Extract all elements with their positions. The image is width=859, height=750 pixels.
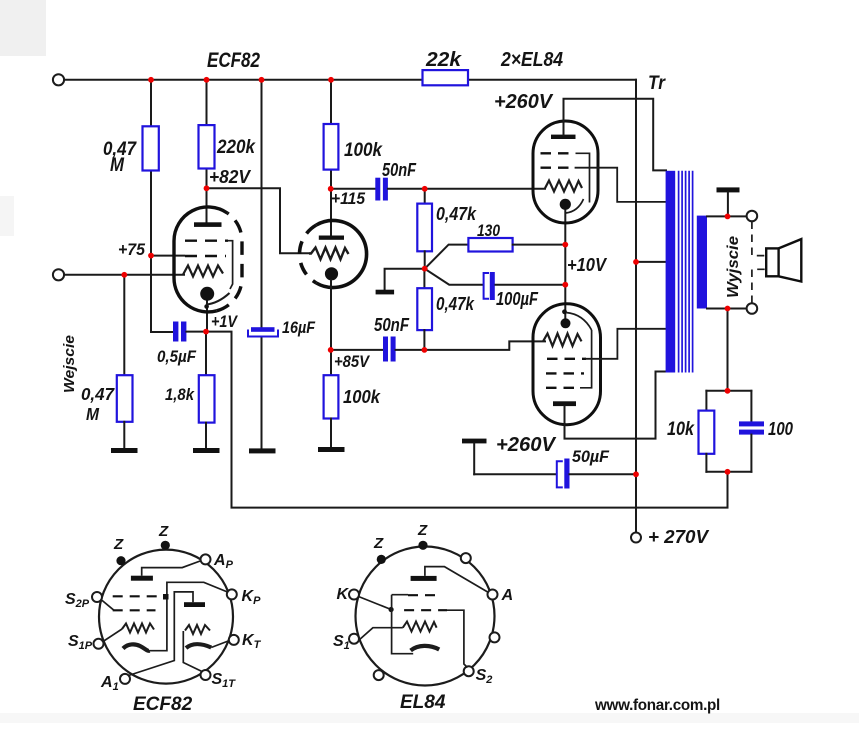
input terminal upper bbox=[53, 74, 64, 85]
grid zigzag V2 bbox=[309, 248, 349, 260]
label +10V bbox=[567, 255, 608, 275]
svg-text:0,47k: 0,47k bbox=[436, 294, 475, 314]
svg-text:A: A bbox=[501, 587, 514, 604]
label 22k bbox=[425, 49, 462, 71]
grid dashes middle EL84 lower bbox=[546, 372, 584, 374]
resistor 220k bbox=[199, 125, 215, 168]
svg-text:100: 100 bbox=[768, 419, 793, 439]
wire secondary bottom terminal bbox=[707, 308, 747, 310]
resistor 130 bbox=[468, 238, 512, 252]
label 50nF upper bbox=[382, 160, 417, 180]
pin S1 EL84 bbox=[349, 634, 359, 644]
svg-text:Wyjscie: Wyjscie bbox=[725, 236, 742, 298]
pentode cathode net Kp ECF82 socket bbox=[123, 582, 228, 651]
grid g2 dashes EL84 socket with S2 bbox=[404, 610, 467, 667]
label K EL84 bbox=[337, 586, 350, 603]
grid zigzag EL84 upper bbox=[545, 181, 582, 192]
pin S1T ECF82 bbox=[201, 670, 211, 680]
svg-text:EL84: EL84 bbox=[400, 692, 446, 713]
label S1P bbox=[68, 633, 93, 652]
label +1V bbox=[211, 312, 238, 331]
svg-text:100µF: 100µF bbox=[496, 289, 539, 309]
label 50uF bbox=[572, 448, 610, 466]
wire RC bottom node bbox=[706, 471, 751, 473]
pin bottom-left EL84 bbox=[374, 670, 384, 680]
wire ground to 50uF bbox=[474, 473, 555, 475]
wire X to 100uF bbox=[425, 269, 484, 285]
label 0,5uF bbox=[157, 347, 197, 366]
svg-text:1,8k: 1,8k bbox=[165, 385, 195, 404]
svg-text:Wejscie: Wejscie bbox=[61, 335, 78, 393]
cathode zigzag V1 bbox=[183, 266, 223, 277]
wire RC top node bbox=[706, 390, 751, 392]
pentode anode ECF82 socket bbox=[131, 561, 202, 581]
cathode hook EL84 upper bbox=[566, 199, 584, 213]
grid zigzag EL84 lower bbox=[543, 334, 582, 347]
pin KT ECF82 bbox=[229, 635, 239, 645]
triode tube V2 envelope bbox=[300, 221, 367, 288]
label Z2 ECF82 bbox=[158, 523, 169, 540]
grid g2 dashes V1 bbox=[185, 255, 226, 257]
svg-text:22k: 22k bbox=[425, 49, 462, 71]
svg-text:100k: 100k bbox=[344, 140, 383, 161]
cathode dot V2 bbox=[325, 267, 338, 280]
resistor 100k upper bbox=[324, 124, 339, 170]
ground X node bbox=[376, 269, 425, 295]
pin top-right EL84 bbox=[461, 553, 471, 563]
label Z1 EL84 bbox=[373, 535, 384, 552]
label A EL84 bbox=[501, 587, 514, 604]
resistor 0,47M upper bbox=[143, 126, 159, 170]
svg-text:M: M bbox=[110, 155, 125, 176]
label EL84 socket bbox=[400, 692, 446, 713]
input terminal lower bbox=[53, 269, 64, 280]
grid g2 dashes EL84 lower with tap bbox=[547, 329, 666, 359]
wire 50uF to B+ bbox=[570, 473, 637, 475]
wire 0,47M upper branch bbox=[151, 80, 173, 332]
socket ECF82 envelope bbox=[99, 550, 233, 684]
capacitor 100 bbox=[739, 391, 764, 472]
wire tube1 cathode to +1V bbox=[206, 301, 208, 332]
anode bar V2 bbox=[319, 236, 344, 240]
output terminal bottom bbox=[747, 303, 758, 314]
cathode arc EL84 socket bbox=[411, 646, 440, 651]
svg-text:Tr: Tr bbox=[648, 73, 666, 94]
pin S2 EL84 bbox=[464, 666, 474, 676]
ground 1,8k bbox=[193, 448, 220, 453]
ground 100k lower bbox=[318, 447, 345, 452]
resistor 0,47M lower bbox=[117, 275, 133, 448]
label 0,47 M lower bbox=[81, 384, 115, 424]
label +75 bbox=[118, 240, 146, 259]
label 50nF lower bbox=[374, 315, 410, 335]
svg-text:+ 270V: + 270V bbox=[648, 527, 710, 547]
wire 220k branch bbox=[206, 80, 208, 223]
wire 100k upper branch bbox=[330, 80, 332, 236]
svg-text:Z: Z bbox=[373, 535, 384, 552]
socket EL84 envelope bbox=[356, 547, 495, 686]
grid g2 dashes EL84 upper with tap bbox=[541, 168, 667, 202]
capacitor 0,5uF bbox=[173, 322, 206, 342]
wire secondary top terminal bbox=[707, 215, 747, 217]
wire 100uF to cathode line bbox=[496, 284, 566, 286]
capacitor 16uF bbox=[248, 327, 278, 336]
pin Kp ECF82 bbox=[227, 589, 237, 599]
resistor 10k bbox=[699, 391, 715, 472]
label Wejscie rotated bbox=[61, 335, 78, 393]
grid g3 dashes EL84 upper bbox=[541, 153, 590, 202]
label +260V lower bbox=[496, 434, 557, 456]
svg-text:+1V: +1V bbox=[211, 312, 238, 331]
wire +75 grid tap bbox=[151, 255, 184, 257]
wire top B+ rail left bbox=[64, 79, 422, 81]
wire EL84 lower anode to transformer bbox=[565, 372, 667, 439]
svg-text:+260V: +260V bbox=[496, 434, 557, 456]
resistor 22k bbox=[423, 70, 469, 85]
wire top B+ rail right bbox=[468, 79, 636, 81]
cathode dot EL84 lower bbox=[561, 309, 571, 328]
capacitor 50uF bbox=[557, 459, 570, 489]
pin Z1 EL84 bbox=[377, 555, 386, 564]
pin Z2 EL84 bbox=[418, 541, 427, 550]
svg-text:ECF82: ECF82 bbox=[133, 694, 193, 715]
svg-text:+85V: +85V bbox=[334, 352, 370, 371]
cathode hook EL84 lower bbox=[566, 313, 592, 331]
label S1 EL84 bbox=[333, 633, 350, 652]
label Tr bbox=[648, 73, 666, 94]
svg-text:+260V: +260V bbox=[494, 91, 554, 113]
wire bottom rail bbox=[206, 332, 728, 508]
label +115 bbox=[331, 189, 365, 208]
grid g3 dashes EL84 socket bbox=[408, 594, 442, 596]
dashed wires to speaker bbox=[752, 222, 766, 304]
grid g3 dashes EL84 lower bbox=[546, 330, 592, 388]
label 2xEL84 bbox=[500, 49, 563, 71]
cathode dot V1 bbox=[200, 287, 214, 309]
triode cathode net KT ECF82 socket bbox=[186, 641, 230, 649]
label Wyjscie rotated bbox=[725, 236, 742, 298]
wire +82V coupling to triode grid bbox=[207, 188, 311, 253]
wire B+ center tap bbox=[636, 261, 666, 263]
svg-text:0,5µF: 0,5µF bbox=[157, 347, 197, 366]
speaker bbox=[766, 239, 801, 281]
capacitor 50nF upper bbox=[375, 178, 388, 201]
label +82V bbox=[209, 167, 252, 187]
svg-text:M: M bbox=[86, 404, 99, 424]
capacitor 50nF lower bbox=[383, 337, 396, 362]
resistor 100k lower bbox=[324, 375, 339, 447]
pin Z1 ECF82 bbox=[116, 556, 125, 565]
anode bar EL84 upper bbox=[551, 135, 576, 139]
cathode hook V1 bbox=[206, 293, 230, 305]
ground output top bbox=[717, 187, 740, 216]
svg-text:100k: 100k bbox=[343, 386, 382, 407]
label Kp bbox=[242, 588, 262, 607]
label S1T bbox=[212, 671, 237, 690]
wire 130 to cathode line bbox=[513, 244, 566, 246]
svg-text:+115: +115 bbox=[331, 189, 365, 208]
label Ap bbox=[213, 552, 234, 571]
label 1,8k bbox=[165, 385, 195, 404]
label + 270V bbox=[648, 527, 710, 547]
svg-text:16µF: 16µF bbox=[282, 318, 316, 337]
pin Ap ECF82 bbox=[201, 554, 211, 564]
label 10k bbox=[667, 419, 695, 440]
pin right-lower EL84 bbox=[490, 632, 500, 642]
svg-text:50nF: 50nF bbox=[374, 315, 410, 335]
pentode tube V1 envelope bbox=[174, 207, 242, 312]
label A1 bbox=[100, 674, 119, 693]
wire 50nF to EL84 grid bbox=[388, 188, 545, 190]
label 130 bbox=[477, 221, 500, 240]
svg-text:130: 130 bbox=[477, 221, 500, 240]
svg-text:K: K bbox=[337, 586, 350, 603]
resistor 1,8k bbox=[199, 332, 215, 448]
svg-text:0,47k: 0,47k bbox=[436, 204, 477, 224]
label ECF82 socket bbox=[133, 694, 193, 715]
pin S2P ECF82 bbox=[92, 592, 102, 602]
transformer core laminations bbox=[679, 171, 693, 373]
svg-text:50nF: 50nF bbox=[382, 160, 417, 180]
svg-text:2×EL84: 2×EL84 bbox=[500, 49, 563, 71]
svg-text:10k: 10k bbox=[667, 419, 695, 440]
label ECF82 top bbox=[207, 49, 260, 72]
pin K EL84 bbox=[349, 590, 359, 600]
ground 16uF bbox=[249, 448, 276, 453]
wire EL84 upper anode to +260V to transformer bbox=[564, 99, 667, 171]
triode grid net S1T ECF82 socket bbox=[183, 625, 210, 672]
wire +85V node to 50nF lower bbox=[331, 349, 383, 351]
svg-text:www.fonar.com.pl: www.fonar.com.pl bbox=[594, 697, 720, 714]
resistor 0,47k upper bbox=[417, 189, 432, 269]
svg-text:+75: +75 bbox=[118, 240, 146, 259]
pentode grid zigzag ECF82 socket bbox=[103, 624, 154, 642]
wire secondary to feedback RC bbox=[727, 309, 729, 391]
label +85V bbox=[334, 352, 370, 371]
label 0,47k upper bbox=[436, 204, 477, 224]
svg-text:Z: Z bbox=[113, 536, 124, 553]
label S2 EL84 bbox=[476, 667, 493, 686]
grid g3 dashes V1 bbox=[185, 241, 233, 289]
EL84 lower envelope bbox=[533, 304, 601, 425]
label 100k upper bbox=[344, 140, 383, 161]
ground 0,47M lower bbox=[111, 448, 138, 453]
ground 50uF bbox=[462, 439, 487, 475]
EL84 upper envelope bbox=[533, 121, 598, 223]
pin A EL84 bbox=[488, 590, 498, 600]
svg-text:+82V: +82V bbox=[209, 167, 252, 187]
terminal +270V bbox=[631, 533, 641, 543]
svg-text:+10V: +10V bbox=[567, 255, 608, 275]
grid g2 dashes ECF82 socket bbox=[101, 600, 156, 611]
label 100k lower bbox=[343, 386, 382, 407]
label 100uF bbox=[496, 289, 539, 309]
wire input to tube1 bbox=[64, 274, 184, 276]
label KT bbox=[242, 632, 262, 651]
label 0,47 M upper bbox=[103, 139, 137, 176]
wire X to 130 bbox=[425, 245, 469, 269]
transformer Tr secondary bbox=[697, 216, 707, 309]
svg-text:Z: Z bbox=[158, 523, 169, 540]
cathode net K EL84 socket bbox=[359, 595, 414, 654]
wire 50nF lower to EL84 grid bbox=[396, 341, 545, 350]
pin S1P ECF82 bbox=[94, 639, 104, 649]
anode bar EL84 lower bbox=[553, 401, 576, 406]
pin Z2 ECF82 bbox=[161, 541, 170, 550]
output terminal top bbox=[747, 211, 758, 222]
svg-text:Z: Z bbox=[417, 522, 428, 539]
svg-text:50µF: 50µF bbox=[572, 448, 610, 466]
resistor 0,47k lower bbox=[417, 269, 432, 350]
transformer Tr primary bbox=[666, 171, 676, 373]
label 0,47k lower bbox=[436, 294, 475, 314]
cathode dot EL84 upper bbox=[560, 199, 571, 210]
label www.fonar.com.pl bbox=[594, 697, 720, 714]
wire +115 node bbox=[331, 188, 375, 190]
label 100 bbox=[768, 419, 793, 439]
triode anode net A1 ECF82 socket bbox=[129, 592, 206, 676]
label Z1 ECF82 bbox=[113, 536, 124, 553]
svg-text:0,47: 0,47 bbox=[81, 384, 115, 404]
svg-text:ECF82: ECF82 bbox=[207, 49, 260, 72]
label Z2 EL84 bbox=[417, 522, 428, 539]
wire EL84 cathode line bbox=[564, 210, 566, 318]
wire B+ vertical to +270V bbox=[635, 80, 637, 533]
label S2P bbox=[65, 591, 90, 610]
anode bar V1 bbox=[194, 222, 222, 227]
grid g3 dashes ECF82 socket bbox=[113, 594, 169, 600]
label 220k bbox=[216, 137, 256, 158]
svg-text:220k: 220k bbox=[216, 137, 256, 158]
anode net EL84 socket bbox=[411, 567, 489, 593]
wire 16uF branch from rail bbox=[261, 80, 263, 448]
grid zigzag EL84 socket with S1 bbox=[359, 622, 437, 641]
capacitor 100uF bbox=[484, 272, 495, 300]
pin A1 ECF82 bbox=[120, 674, 130, 684]
label 16uF bbox=[282, 318, 316, 337]
wire V2 cathode to +85V bbox=[330, 280, 332, 375]
label +260V upper bbox=[494, 91, 554, 113]
